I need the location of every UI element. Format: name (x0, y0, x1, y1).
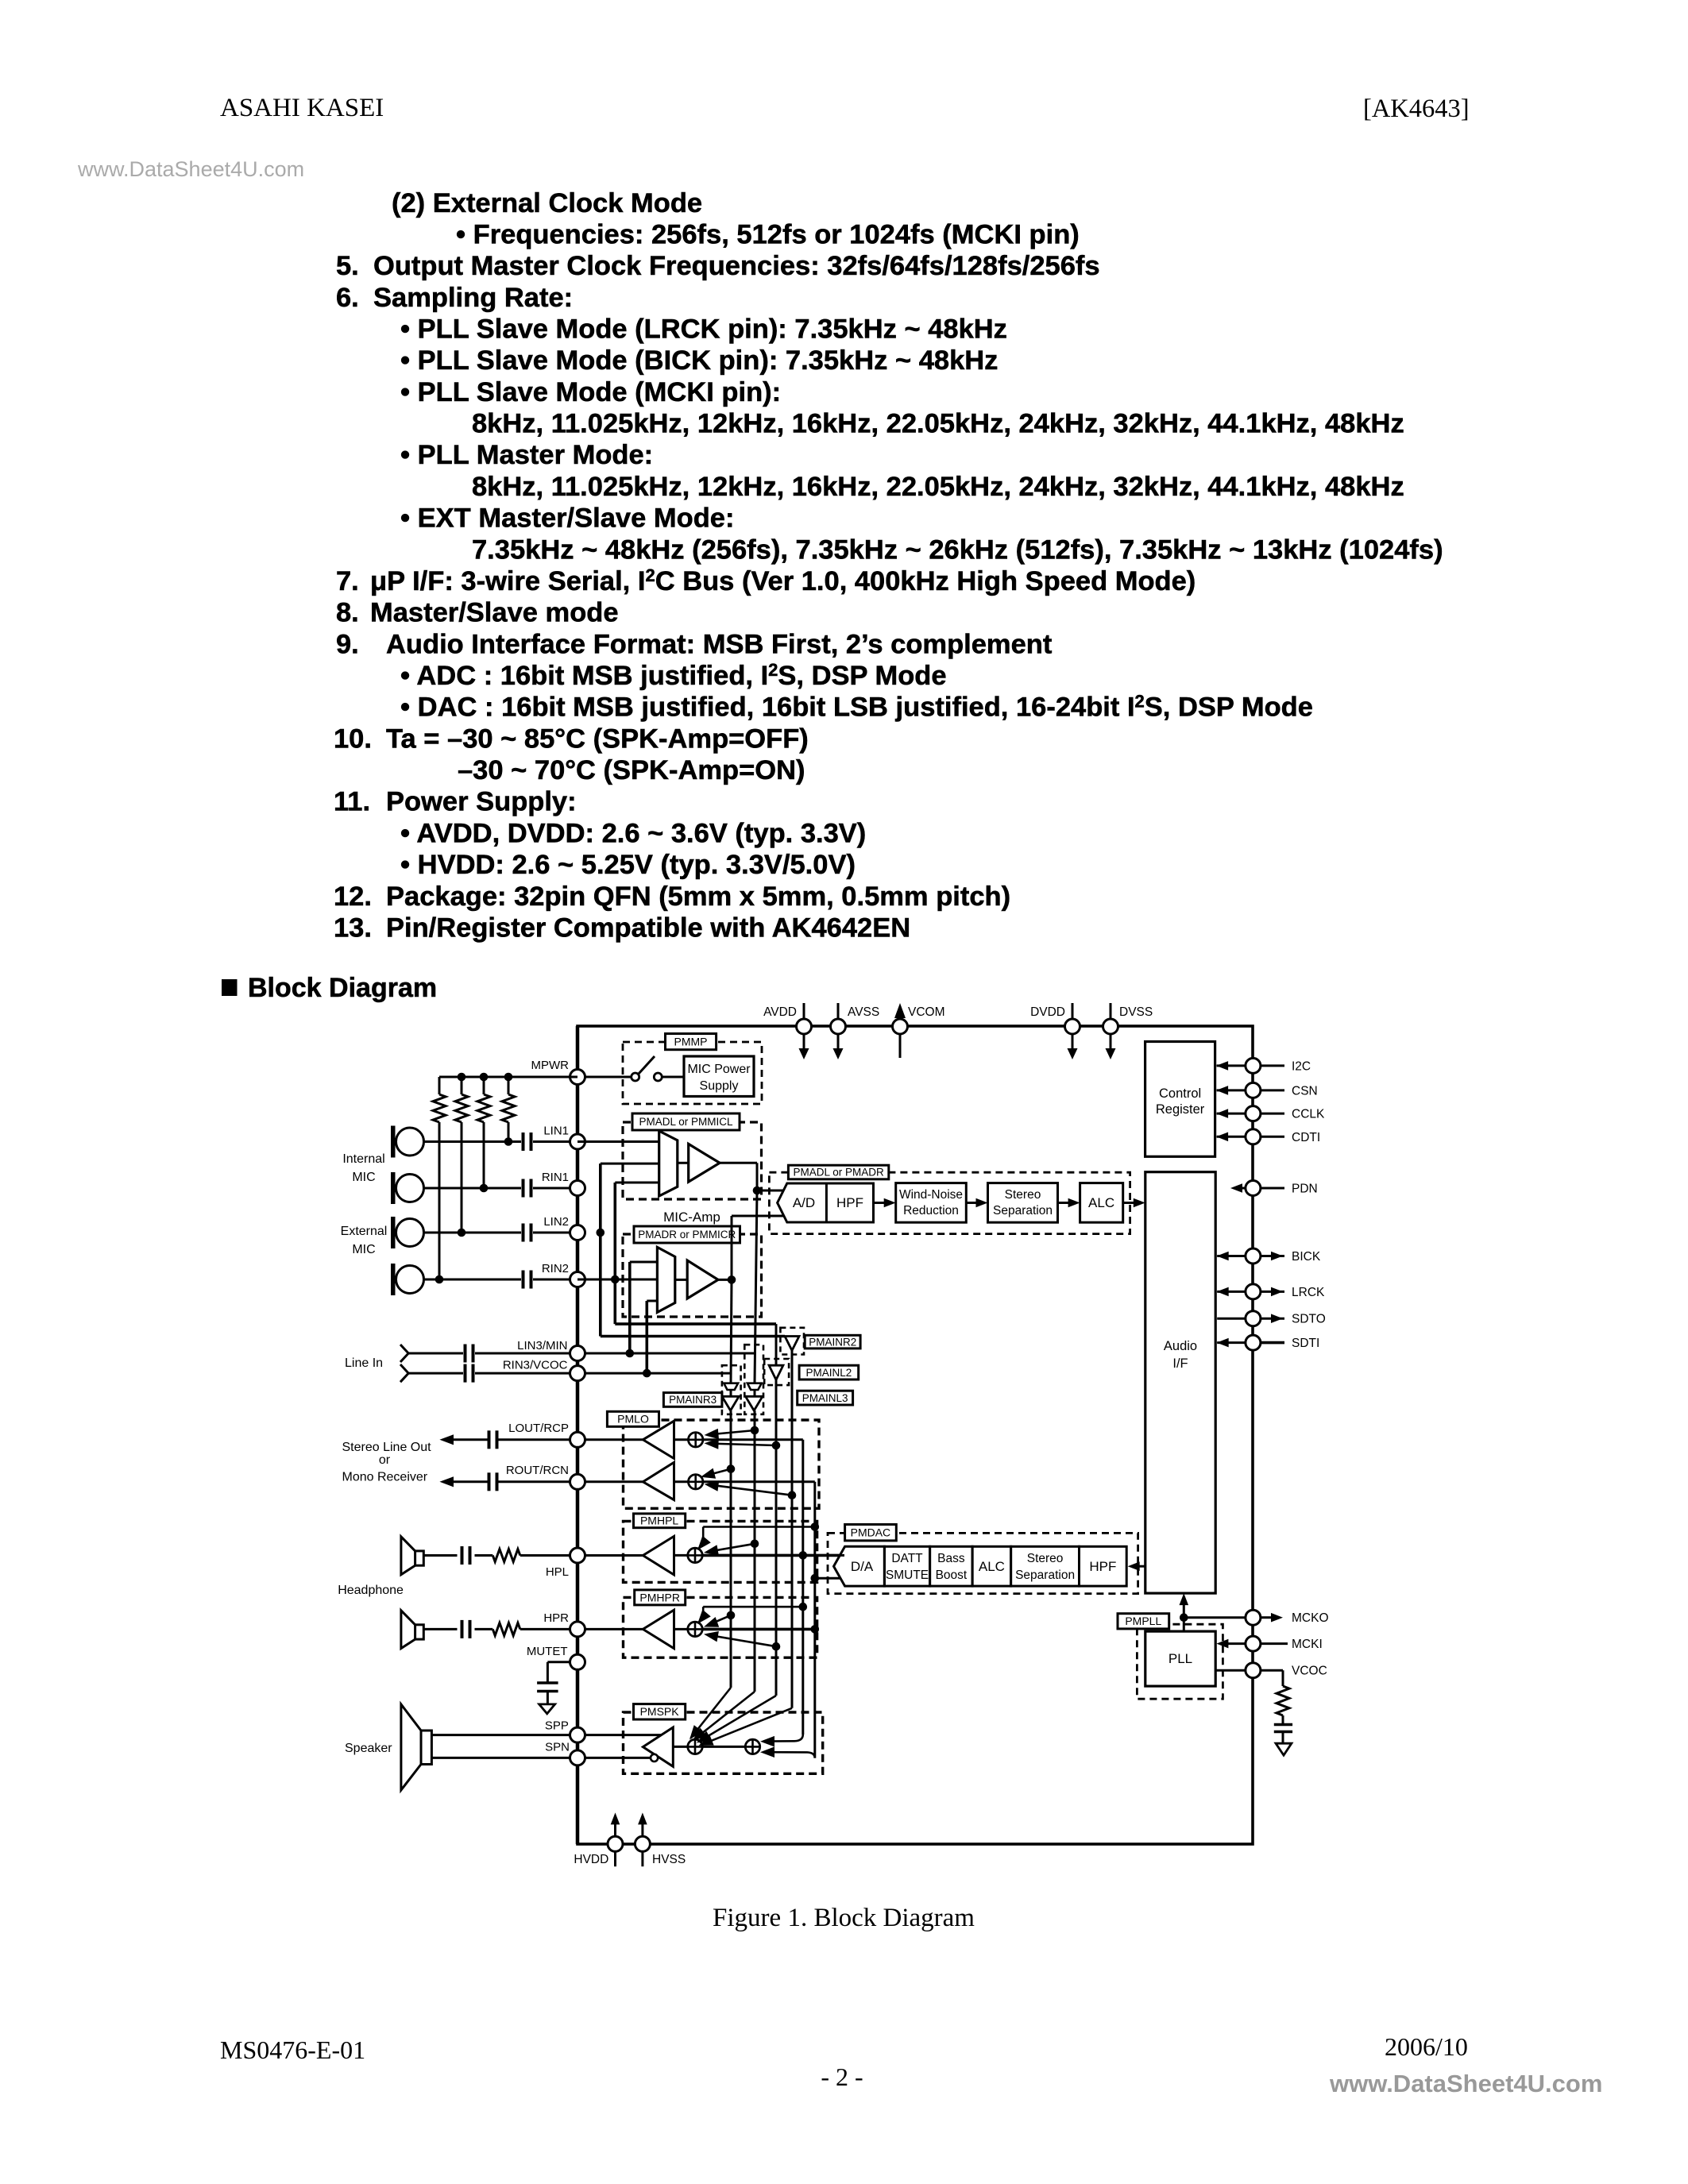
svg-text:MCKI: MCKI (1292, 1638, 1323, 1651)
svg-text:LRCK: LRCK (1292, 1286, 1325, 1299)
ALC box (DAC) (972, 1546, 1011, 1586)
pin LIN1 (543, 1125, 585, 1150)
svg-text:PMSPK: PMSPK (640, 1705, 680, 1718)
svg-text:RIN2: RIN2 (542, 1262, 569, 1275)
label box PMHPR (635, 1590, 686, 1605)
mixer SPK1 (673, 1739, 702, 1754)
svg-text:PMDAC: PMDAC (851, 1526, 891, 1539)
microphone symbol for RIN2 (391, 1264, 424, 1295)
vertical signal rail L3 (x=950, from MIC amp L output) (755, 1190, 757, 1692)
svg-text:RIN1: RIN1 (542, 1171, 569, 1184)
Stereo Separation box (ADC) (988, 1183, 1058, 1223)
svg-text:13.: 13. (334, 913, 372, 943)
svg-text:Stereo: Stereo (1005, 1188, 1041, 1202)
power pin VCOM (893, 1003, 945, 1058)
svg-text:• AVDD, DVDD: 2.6 ~ 3.6V (typ.: • AVDD, DVDD: 2.6 ~ 3.6V (typ. 3.3V) (400, 818, 866, 848)
pin SDTO (1217, 1311, 1326, 1326)
wire / coupling capacitor / resistor on HPR (423, 1620, 577, 1638)
wire mic to LIN2 pin (424, 1232, 578, 1234)
svg-text:SPN: SPN (545, 1741, 570, 1754)
svg-text:MIC: MIC (352, 1243, 375, 1256)
svg-text:Bass: Bass (937, 1552, 965, 1565)
coupling capacitor on RIN1 line (523, 1179, 531, 1198)
pin LIN3/MIN (517, 1339, 585, 1361)
arrow PLL to Audio I/F (1180, 1593, 1189, 1631)
PMAINR3 attenuator trapezoid (724, 1383, 738, 1390)
arrow L3 into HPL mixer (704, 1540, 759, 1556)
pin HPL (546, 1548, 585, 1579)
svg-text:(2) External Clock Mode: (2) External Clock Mode (392, 188, 702, 218)
svg-text:Headphone: Headphone (338, 1584, 404, 1597)
svg-text:DVSS: DVSS (1119, 1005, 1153, 1019)
svg-text:ROUT/RCN: ROUT/RCN (506, 1464, 569, 1477)
svg-text:I2C: I2C (1292, 1059, 1311, 1073)
pin CSN (1216, 1082, 1318, 1098)
label Stereo Line Out / or / Mono Receiver (342, 1441, 432, 1484)
speaker amp triangle (643, 1727, 673, 1766)
MUTET external capacitor to ground (537, 1662, 570, 1704)
label box PMLO (607, 1411, 659, 1426)
pin RIN1 (542, 1171, 585, 1196)
pin HVDD (574, 1812, 623, 1866)
wire SPN to amp bubble (577, 1757, 651, 1759)
svg-text:• PLL Slave Mode (LRCK pin): 7: • PLL Slave Mode (LRCK pin): 7.35kHz ~ 4… (400, 314, 1007, 345)
headphone amp R triangle (643, 1610, 674, 1649)
arrow L2 rail into SPK mixer (697, 1696, 776, 1743)
MIC amp R (PGA trapezoid U1b) (657, 1247, 674, 1312)
wire HPL pin to amp (577, 1554, 643, 1557)
svg-text:SPP: SPP (545, 1719, 569, 1733)
svg-text:A/D: A/D (793, 1195, 815, 1210)
pin PDN (1230, 1181, 1318, 1196)
svg-text:CCLK: CCLK (1292, 1108, 1325, 1121)
chip left edge (pin column, thick) (576, 1026, 580, 1844)
DATT SMUTE box (884, 1546, 929, 1586)
wire DAC-L rail to LOUT mixer (703, 1440, 803, 1734)
svg-text:6.: 6. (336, 283, 359, 313)
pin LIN2 (543, 1215, 585, 1241)
mixer ROUT (689, 1475, 703, 1489)
pin SDTI (1217, 1335, 1320, 1350)
PMAINL2 attenuator triangle (764, 1359, 789, 1385)
pin CCLK (1216, 1106, 1325, 1121)
headphone speaker symbol R (401, 1611, 423, 1649)
vertical signal rail R2 (x=997) (791, 1351, 794, 1708)
svg-text:HPF: HPF (1089, 1559, 1116, 1574)
arrow R2 into ROUT mixer (705, 1480, 797, 1499)
pin HVSS (635, 1812, 686, 1866)
wire RIN3/VCOC (408, 1369, 732, 1378)
svg-text:LIN3/MIN: LIN3/MIN (517, 1339, 567, 1352)
MIC amp R buffer triangle (675, 1260, 718, 1298)
svg-text:12.: 12. (334, 882, 372, 912)
MIC Power Supply box (684, 1056, 754, 1097)
power pin AVSS (831, 1003, 880, 1059)
svg-text:Stereo: Stereo (1027, 1552, 1064, 1565)
svg-text:8kHz, 11.025kHz, 12kHz, 16kHz,: 8kHz, 11.025kHz, 12kHz, 16kHz, 22.05kHz,… (472, 472, 1404, 502)
svg-text:• Frequencies: 256fs, 512fs or: • Frequencies: 256fs, 512fs or 1024fs (M… (456, 220, 1080, 250)
svg-text:Separation: Separation (993, 1204, 1053, 1217)
coupling capacitor on LIN1 line (523, 1133, 531, 1151)
arrow L3 into LOUT mixer (705, 1426, 759, 1440)
wire mic to LIN1 pin (424, 1140, 578, 1143)
svg-text:Ta = –30 ~ 85°C (SPK-Amp=OFF): Ta = –30 ~ 85°C (SPK-Amp=OFF) (386, 723, 809, 754)
arrow ALC to Audio I/F (1123, 1198, 1145, 1208)
mixer HPR (674, 1622, 703, 1636)
coupling capacitor on LIN2 line (523, 1224, 531, 1242)
resistor bias R1 (433, 1077, 446, 1283)
pin SPP (545, 1719, 585, 1743)
arrow L3 rail into SPK mixer (693, 1692, 755, 1741)
PMPLL dashed box (1137, 1624, 1223, 1699)
svg-text:Audio: Audio (1164, 1339, 1197, 1353)
svg-text:PMADR or PMMICR: PMADR or PMMICR (638, 1229, 736, 1241)
svg-text:Supply: Supply (700, 1079, 739, 1093)
speaker symbol (401, 1704, 432, 1790)
ALC box (ADC) (1080, 1183, 1123, 1223)
svg-text:- 2 -: - 2 - (821, 2062, 863, 2091)
svg-text:Internal: Internal (342, 1152, 384, 1166)
wire DAC-R rail to HPR mixer (703, 1625, 820, 1634)
svg-text:PDN: PDN (1292, 1183, 1318, 1196)
arrow bend into HPR mixer from top (697, 1603, 807, 1624)
wire / coupling capacitor / resistor on HPL (423, 1546, 577, 1565)
PMAINR2 attenuator triangle (780, 1328, 804, 1355)
svg-text:CDTI: CDTI (1292, 1131, 1320, 1144)
wire LIN3 riser to amp R in1 (630, 1262, 658, 1353)
wire ROUT/RCN to pin (577, 1480, 643, 1483)
svg-text:μP I/F: 3-wire Serial, I2C Bus: μP I/F: 3-wire Serial, I2C Bus (Ver 1.0,… (370, 565, 1196, 596)
svg-text:CSN: CSN (1292, 1084, 1318, 1098)
svg-text:Separation: Separation (1015, 1569, 1075, 1582)
pin BICK (1217, 1248, 1321, 1264)
svg-text:10.: 10. (334, 723, 372, 754)
PMMP label box (666, 1034, 717, 1050)
switch in PMMP (585, 1056, 685, 1081)
wire amp R output node, riser to A/D in2 (718, 1216, 783, 1284)
svg-text:• PLL Slave Mode (MCKI pin):: • PLL Slave Mode (MCKI pin): (400, 377, 781, 407)
analog ground symbol (VCOC) (1276, 1743, 1292, 1755)
pin MCKI (1216, 1636, 1322, 1651)
label box PMAINL3 (798, 1391, 853, 1405)
Line In chevron L (400, 1345, 408, 1362)
svg-text:DATT: DATT (891, 1552, 923, 1565)
coupling capacitor RIN3 (465, 1364, 473, 1383)
svg-text:BICK: BICK (1292, 1250, 1321, 1264)
pin LRCK (1217, 1284, 1325, 1299)
wire LIN2 riser to amp L in2 / down to PMAINR2 rail (597, 1163, 659, 1336)
arrow Stereo Separation to ALC (1058, 1198, 1080, 1208)
pin I2C (1216, 1058, 1311, 1073)
svg-text:VCOM: VCOM (908, 1005, 945, 1019)
svg-text:–30 ~ 70°C (SPK-Amp=ON): –30 ~ 70°C (SPK-Amp=ON) (458, 755, 805, 785)
svg-text:LIN1: LIN1 (543, 1125, 569, 1138)
svg-text:VCOC: VCOC (1292, 1665, 1327, 1678)
svg-text:D/A: D/A (851, 1559, 874, 1574)
svg-text:MPWR: MPWR (531, 1059, 570, 1072)
svg-text:LIN2: LIN2 (543, 1215, 569, 1229)
wire MPWR bias rail (439, 1076, 577, 1078)
label box PMADR or PMMICR (634, 1226, 740, 1243)
wire RIN2 to amp R in2 (577, 1279, 657, 1281)
svg-text:ASAHI KASEI: ASAHI KASEI (220, 94, 384, 122)
svg-text:Wind-Noise: Wind-Noise (899, 1188, 963, 1202)
pin ROUT/RCN (506, 1464, 585, 1489)
svg-text:SDTO: SDTO (1292, 1313, 1326, 1326)
wire HPR pin to amp (577, 1628, 643, 1630)
svg-text:Reduction: Reduction (903, 1204, 959, 1217)
PMMP dashed group box (623, 1042, 762, 1104)
Wind-Noise Reduction box (896, 1183, 967, 1223)
coupling capacitor LOUT (489, 1430, 570, 1449)
svg-text:PMHPR: PMHPR (639, 1591, 680, 1603)
wire RIN3 riser to amp R in3 (647, 1301, 657, 1373)
svg-text:Package: 32pin QFN (5mm x 5mm,: Package: 32pin QFN (5mm x 5mm, 0.5mm pit… (386, 882, 1010, 912)
arrow DAC-R rail into SPK mixer2 from below (760, 1746, 815, 1758)
wire LIN1 to amp L in1 (577, 1140, 659, 1143)
svg-text:www.DataSheet4U.com: www.DataSheet4U.com (77, 157, 304, 181)
svg-text:• ADC : 16bit MSB justified, I: • ADC : 16bit MSB justified, I2S, DSP Mo… (400, 660, 947, 691)
wire LIN3/MIN (408, 1349, 755, 1358)
svg-text:Pin/Register Compatible with A: Pin/Register Compatible with AK4642EN (386, 913, 910, 943)
PMAINR3 triangle (722, 1390, 739, 1410)
svg-text:• DAC : 16bit MSB justified, 1: • DAC : 16bit MSB justified, 16bit LSB j… (400, 692, 1313, 723)
svg-text:HPR: HPR (543, 1611, 569, 1625)
wire mic to RIN1 pin (424, 1187, 578, 1190)
svg-text:MUTET: MUTET (527, 1645, 568, 1658)
PMADL or PMADR dashed box (769, 1172, 1130, 1233)
arrow L2 into LOUT mixer (705, 1438, 781, 1449)
pin VCOC (1215, 1663, 1327, 1678)
wires speaker to SPP/SPN (431, 1735, 570, 1758)
svg-text:Figure 1. Block Diagram: Figure 1. Block Diagram (713, 1904, 975, 1932)
arrow R3 into ROUT mixer (701, 1464, 735, 1478)
arrow R3 rail into SPK mixer (689, 1688, 731, 1740)
svg-text:AVDD: AVDD (763, 1005, 797, 1019)
pin RIN2 (542, 1262, 585, 1287)
svg-text:8.: 8. (336, 598, 359, 628)
svg-text:HPF: HPF (836, 1195, 863, 1210)
microphone symbol for LIN2 (391, 1217, 424, 1248)
label box PMAINL2 (799, 1365, 859, 1379)
power pin DVDD (1030, 1003, 1080, 1059)
svg-text:• EXT Master/Slave Mode:: • EXT Master/Slave Mode: (400, 504, 734, 534)
wire D/A L output (840, 1554, 845, 1557)
svg-text:SDTI: SDTI (1292, 1337, 1319, 1350)
svg-text:MS0476-E-01: MS0476-E-01 (220, 2035, 365, 2064)
VCOC external resistor (1277, 1670, 1289, 1723)
svg-text:Control: Control (1159, 1086, 1201, 1101)
svg-text:Line In: Line In (345, 1356, 383, 1370)
wire LOUT/RCP to pin (577, 1438, 643, 1441)
PMAINL3 attenuator trapezoid (747, 1383, 762, 1390)
svg-text:8kHz, 11.025kHz, 12kHz, 16kHz,: 8kHz, 11.025kHz, 12kHz, 16kHz, 22.05kHz,… (472, 409, 1404, 439)
label Internal MIC (342, 1152, 384, 1184)
svg-text:PMAINR2: PMAINR2 (809, 1336, 856, 1348)
svg-text:7.: 7. (336, 566, 359, 596)
vertical signal rail L2 (x=977) (775, 1379, 778, 1696)
mixer HPL (674, 1548, 703, 1562)
svg-text:Sampling Rate:: Sampling Rate: (373, 283, 573, 313)
mixer LOUT (689, 1433, 703, 1447)
label box PMAINR3 (663, 1393, 722, 1407)
PMHPL dashed box (624, 1521, 817, 1582)
Audio I/F box (1145, 1172, 1215, 1593)
svg-text:HPL: HPL (546, 1565, 569, 1579)
coupling capacitor on RIN2 line (523, 1271, 531, 1289)
inverting bubble on SPN output (651, 1754, 658, 1761)
svg-text:ALC: ALC (979, 1559, 1005, 1574)
Line In chevron R (400, 1364, 408, 1382)
mixer SPK2 (703, 1739, 760, 1754)
svg-text:I/F: I/F (1172, 1356, 1188, 1371)
svg-text:7.35kHz ~ 48kHz (256fs), 7.35k: 7.35kHz ~ 48kHz (256fs), 7.35kHz ~ 26kHz… (472, 534, 1443, 565)
VCOC external capacitor (1274, 1725, 1292, 1744)
svg-text:9.: 9. (336, 629, 359, 659)
svg-text:RIN3/VCOC: RIN3/VCOC (503, 1359, 568, 1372)
svg-text:PMLO: PMLO (617, 1413, 649, 1426)
line-out amp R triangle (643, 1462, 674, 1499)
svg-text:• PLL Slave Mode (BICK pin): 7: • PLL Slave Mode (BICK pin): 7.35kHz ~ 4… (400, 345, 998, 376)
coupling capacitor ROUT (489, 1472, 570, 1491)
D/A pentagon (834, 1546, 885, 1586)
svg-text:www.DataSheet4U.com: www.DataSheet4U.com (1329, 2070, 1602, 2097)
wire amp L output to A/D (node L) (720, 1163, 783, 1194)
svg-text:2006/10: 2006/10 (1385, 2032, 1468, 2061)
wire DAC-R rail to ROUT mixer (703, 1482, 815, 1758)
MIC amp L buffer triangle (678, 1144, 720, 1182)
label box PMADL or PMMICL (632, 1113, 740, 1130)
svg-text:• PLL Master Mode:: • PLL Master Mode: (400, 440, 653, 470)
vertical signal rail R3 (x=920, from MIC amp R output) (731, 1279, 732, 1688)
arrow Wind-Noise to Stereo Separation (966, 1198, 987, 1208)
svg-text:ALC: ALC (1088, 1195, 1114, 1210)
label box PMAINR2 (805, 1335, 860, 1349)
MIC-Amp lower dashed box (PMADR or PMMICR) (623, 1234, 762, 1317)
svg-text:PMMP: PMMP (674, 1036, 708, 1048)
svg-text:SMUTE: SMUTE (886, 1569, 929, 1582)
svg-text:MIC-Amp: MIC-Amp (663, 1210, 720, 1225)
svg-text:PMADL or PMADR: PMADL or PMADR (793, 1167, 884, 1179)
svg-text:HVSS: HVSS (652, 1853, 686, 1866)
pin HPR (543, 1611, 585, 1637)
PLL box (1145, 1631, 1215, 1686)
svg-text:Power Supply:: Power Supply: (386, 787, 577, 817)
Stereo Separation box (DAC) (1011, 1546, 1080, 1586)
wire LOUT mixer to amp (674, 1438, 689, 1441)
PMAINR3 dashed box (722, 1365, 741, 1414)
svg-text:Speaker: Speaker (345, 1742, 392, 1755)
svg-text:Audio Interface Format: MSB Fi: Audio Interface Format: MSB First, 2’s c… (386, 629, 1053, 659)
microphone symbol for RIN1 (391, 1172, 424, 1204)
wire DAC-L output to HPL mixer (703, 1551, 840, 1560)
svg-text:PMADL or PMMICL: PMADL or PMMICL (639, 1116, 733, 1128)
svg-text:HVDD: HVDD (574, 1853, 608, 1866)
svg-text:DVDD: DVDD (1030, 1005, 1065, 1019)
svg-text:Master/Slave mode: Master/Slave mode (370, 598, 619, 628)
svg-text:PMAINR3: PMAINR3 (669, 1394, 717, 1406)
resistor bias R3 (477, 1077, 490, 1192)
A/D + HPF flag shape (778, 1183, 874, 1222)
PMDAC dashed box (828, 1533, 1138, 1593)
pin MPWR (531, 1059, 585, 1085)
line-out amp L triangle (643, 1421, 674, 1458)
HPF box (DAC) (1080, 1546, 1127, 1586)
svg-text:MCKO: MCKO (1292, 1611, 1329, 1625)
pin SPN (545, 1741, 585, 1765)
analog ground symbol (MUTET) (539, 1704, 555, 1714)
pin CDTI (1216, 1129, 1320, 1144)
svg-text:11.: 11. (334, 787, 370, 817)
microphone symbol for LIN1 (391, 1126, 424, 1158)
wire SPP to amp (577, 1734, 662, 1736)
arrow bend into HPL mixer from top (697, 1522, 819, 1550)
pin MUTET (527, 1645, 585, 1669)
label box PMADL or PMADR (788, 1165, 888, 1179)
svg-text:[AK4643]: [AK4643] (1363, 95, 1470, 123)
resistor bias R4 (502, 1077, 515, 1146)
headphone amp L triangle (643, 1536, 674, 1575)
svg-text:Block Diagram: Block Diagram (248, 973, 437, 1003)
PMHPR dashed box (624, 1597, 817, 1657)
arrow Audio I/F into HPF (1128, 1561, 1145, 1571)
PMSPK dashed box (624, 1712, 823, 1773)
wire ROUT mixer to amp (674, 1480, 689, 1483)
arrow DAC-L rail into SPK mixer2 (760, 1734, 803, 1747)
label box PMDAC (845, 1525, 897, 1541)
svg-text:Output Master Clock Frequencie: Output Master Clock Frequencies: 32fs/64… (373, 251, 1100, 281)
resistor bias R2 (455, 1077, 468, 1237)
junction dots on bias rail (458, 1073, 513, 1082)
svg-text:5.: 5. (336, 251, 359, 281)
svg-text:PMHPL: PMHPL (640, 1515, 678, 1527)
headphone speaker symbol L (401, 1537, 423, 1575)
pin MCKO (1184, 1610, 1328, 1625)
arrow R2 rail into SPK mixer (699, 1708, 793, 1746)
power pin AVDD (763, 1003, 811, 1059)
arrow L2 into HPR mixer from below (704, 1631, 780, 1651)
wire D/A R output to DAC-R rail (811, 1574, 841, 1583)
label box PMSPK (634, 1704, 686, 1719)
coupling capacitor LIN3 (465, 1345, 473, 1363)
wire mic to RIN2 pin (424, 1279, 578, 1281)
arrow HPF to Wind-Noise (874, 1198, 896, 1208)
PMLO dashed box (624, 1420, 820, 1508)
arrow Stereo Line Out L (439, 1434, 487, 1445)
MIC amp L (PGA trapezoid U1a) (659, 1131, 678, 1196)
wire RIN2 rail to PMAINL2 (615, 1324, 776, 1365)
section heading Block Diagram (222, 973, 437, 1003)
label box PMHPL (634, 1514, 686, 1528)
svg-text:• HVDD: 2.6 ~ 5.25V (typ. 3.3V: • HVDD: 2.6 ~ 5.25V (typ. 3.3V/5.0V) (400, 850, 856, 880)
chip outline (577, 1026, 1253, 1844)
pin LOUT/RCP (508, 1422, 585, 1447)
svg-text:Stereo Line Out: Stereo Line Out (342, 1441, 432, 1454)
svg-text:External: External (341, 1225, 388, 1238)
svg-text:MIC Power: MIC Power (687, 1063, 751, 1076)
pin RIN3/VCOC (503, 1359, 585, 1381)
wire LIN2 rail to PMAINR2 (601, 1335, 785, 1338)
svg-text:Register: Register (1156, 1102, 1205, 1117)
label box PMPLL (1118, 1614, 1169, 1629)
power pin DVSS (1103, 1003, 1153, 1059)
svg-text:Boost: Boost (936, 1569, 968, 1582)
arrow Stereo Line Out R (439, 1476, 487, 1487)
wire RIN2 riser to amp L in3 / down to PMAINL2 rail (611, 1183, 659, 1324)
svg-text:PLL: PLL (1168, 1651, 1192, 1666)
Bass Boost box (930, 1546, 973, 1586)
svg-text:PMAINL3: PMAINL3 (802, 1392, 848, 1404)
